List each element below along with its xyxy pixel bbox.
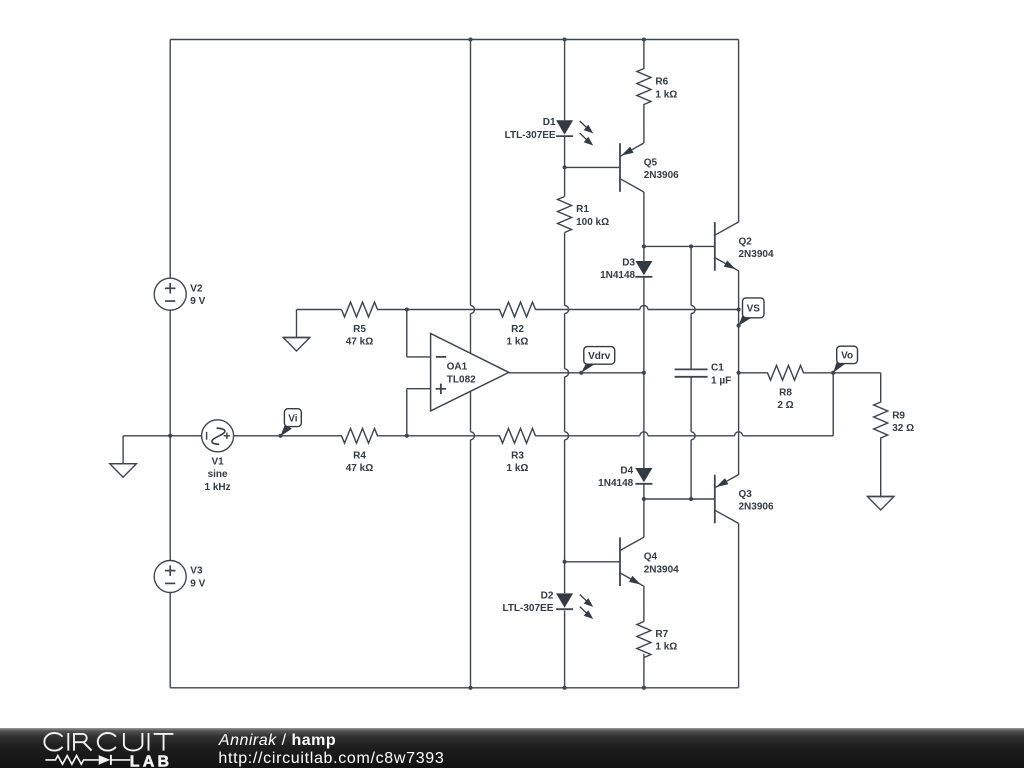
- svg-text:R5: R5: [353, 324, 366, 335]
- junction bottom rail / D2 col: [563, 686, 567, 690]
- voltage source V1 (sine): [202, 420, 234, 452]
- junction Q2 base / D3: [642, 244, 646, 248]
- wire R3 to Vo riser: [535, 435, 640, 437]
- wire ground stub at V1 row: [123, 435, 170, 437]
- wire V1 row left: [170, 435, 201, 437]
- svg-text:TL082: TL082: [447, 374, 476, 385]
- svg-text:R1: R1: [576, 204, 589, 215]
- node plus input (R4/R3): [405, 434, 409, 438]
- wire feedback node to R2: [407, 309, 500, 311]
- svg-text:C1: C1: [711, 363, 724, 374]
- svg-text:1 kΩ: 1 kΩ: [507, 337, 529, 348]
- svg-text:V2: V2: [190, 283, 203, 294]
- wire Q4 base node to D2: [564, 562, 566, 593]
- svg-text:D2: D2: [541, 590, 554, 601]
- svg-text:Annirak / hamp: Annirak / hamp: [218, 732, 336, 749]
- svg-text:9 V: 9 V: [190, 578, 205, 589]
- wire R6 to Q5 emitter: [643, 104, 645, 143]
- wire left rail lower (V3 bottom lead): [169, 593, 171, 688]
- voltage source V3: [154, 561, 186, 593]
- node Vdrv/D3-D4 midpoint: [642, 371, 646, 375]
- svg-text:R3: R3: [511, 450, 524, 461]
- wire V1 to R4: [234, 435, 342, 437]
- svg-text:Vo: Vo: [841, 351, 853, 362]
- svg-text:VS: VS: [747, 303, 761, 314]
- svg-text:R9: R9: [892, 410, 905, 421]
- wire R9 lower lead: [880, 438, 882, 497]
- svg-text:47 kΩ: 47 kΩ: [346, 463, 373, 474]
- svg-text:1N4148: 1N4148: [598, 478, 633, 489]
- wire left rail middle (V2 bottom to V3 top): [169, 310, 171, 560]
- wire Q2 emitter to VS node: [738, 271, 740, 373]
- transistor Q5 (PNP): [619, 143, 621, 192]
- node feedback (R5/R2/op-amp minus): [405, 307, 409, 311]
- svg-text:D3: D3: [622, 257, 635, 268]
- wire D4 cathode to Q3 base node: [643, 485, 645, 500]
- resistor R7: [637, 622, 651, 658]
- wire D2 cathode to bottom rail: [564, 611, 566, 688]
- junction VS column / R8 row: [737, 371, 741, 375]
- svg-text:1 µF: 1 µF: [711, 375, 731, 386]
- wire left rail upper (V2 top lead): [169, 40, 171, 279]
- net label Vdrv: [581, 363, 595, 373]
- wire feedback node down to op-amp minus: [406, 310, 408, 357]
- junction Q3 base / C1 col: [689, 497, 693, 501]
- wire C1 column upper (Q2 base node to C1): [690, 246, 692, 305]
- wire op-amp plus down to R4 node: [407, 388, 431, 390]
- svg-text:Vi: Vi: [288, 413, 297, 424]
- wire D1 cathode to Q5 base node: [564, 137, 566, 167]
- wire D1-R1-D2 column top lead: [564, 40, 566, 121]
- svg-text:32 Ω: 32 Ω: [892, 423, 914, 434]
- resistor R8: [768, 365, 804, 380]
- wire Q5 base node to R1: [564, 167, 566, 196]
- svg-text:1 kΩ: 1 kΩ: [655, 642, 677, 653]
- ground under R9: [867, 496, 894, 498]
- wire Q2 collector to top rail: [738, 40, 740, 223]
- svg-text:2 Ω: 2 Ω: [777, 400, 793, 411]
- svg-text:2N3904: 2N3904: [739, 249, 774, 260]
- ground under R5: [283, 337, 310, 339]
- net label VS: [739, 312, 752, 325]
- transistor Q2 (NPN): [714, 222, 716, 271]
- wire R7 to bottom rail: [643, 654, 645, 688]
- svg-text:V3: V3: [190, 566, 203, 577]
- wire VS column to Q3 emitter: [738, 373, 740, 475]
- diode D3: [635, 261, 652, 275]
- svg-text:Q3: Q3: [739, 489, 753, 500]
- svg-text:V1: V1: [211, 457, 224, 468]
- junction Q2 base / C1 col: [689, 244, 693, 248]
- resistor R1: [558, 197, 572, 233]
- wire R1 down to Q4 base node: [564, 233, 566, 306]
- svg-text:R6: R6: [655, 77, 668, 88]
- net label Vo: [833, 359, 846, 373]
- svg-text:2N3904: 2N3904: [644, 564, 679, 575]
- LED D1: [556, 120, 573, 134]
- svg-text:1 kΩ: 1 kΩ: [507, 463, 529, 474]
- wire Q4 emitter to R7: [643, 586, 645, 622]
- svg-text:Q2: Q2: [739, 236, 753, 247]
- node VS junction: [737, 307, 741, 311]
- voltage source V2: [154, 278, 186, 310]
- logo resistor-diode glyph: [45, 756, 98, 765]
- resistor R3: [500, 428, 536, 443]
- junction bottom rail / col1: [468, 686, 472, 690]
- svg-text:R4: R4: [353, 450, 366, 461]
- wire Q3 base node to Q4 collector: [643, 499, 645, 537]
- diode D4: [635, 468, 652, 482]
- LED D2: [556, 593, 573, 607]
- wire C1 column lower (C1 to Q3 base node): [690, 377, 692, 432]
- capacitor C1: [675, 368, 708, 370]
- resistor R2: [500, 302, 536, 317]
- wire top supply rail: [170, 39, 738, 41]
- wire Q5 collector to Q2 base node: [643, 192, 645, 247]
- svg-text:R8: R8: [779, 387, 792, 398]
- node Vo: [831, 371, 835, 375]
- svg-text:2N3906: 2N3906: [739, 502, 774, 513]
- svg-text:D4: D4: [620, 465, 633, 476]
- wire R5 to feedback node: [377, 309, 407, 311]
- transistor Q4 (NPN): [619, 537, 621, 586]
- wire R8 row from VS column: [739, 372, 768, 374]
- wire R2 to VS column: [535, 309, 640, 311]
- svg-text:R2: R2: [511, 324, 524, 335]
- wire Q2 base: [644, 245, 715, 247]
- wire bottom rail: [170, 687, 738, 689]
- svg-text:LAB: LAB: [130, 754, 172, 768]
- svg-text:LTL-307EE: LTL-307EE: [502, 603, 553, 614]
- wire Q5 base: [565, 166, 620, 168]
- svg-text:OA1: OA1: [447, 361, 468, 372]
- svg-text:sine: sine: [208, 469, 228, 480]
- svg-text:100 kΩ: 100 kΩ: [576, 217, 609, 228]
- wire vertical column through op-amp region: [470, 40, 472, 306]
- wire Q4 base: [565, 561, 620, 563]
- wire R5 ground stub: [296, 310, 298, 338]
- wire R8 to R9 corner: [803, 372, 881, 374]
- svg-text:Q4: Q4: [644, 552, 658, 563]
- wire Vdrv row to D4 anode: [643, 373, 645, 468]
- wire Q3 base: [644, 498, 715, 500]
- resistor R9: [874, 402, 888, 438]
- wire Vo riser: [832, 373, 834, 436]
- op-amp OA1: [431, 333, 509, 411]
- svg-text:R7: R7: [655, 629, 668, 640]
- svg-text:47 kΩ: 47 kΩ: [346, 337, 373, 348]
- junction top rail / col1: [468, 37, 472, 41]
- wire node A to R3: [407, 435, 500, 437]
- svg-text:D1: D1: [543, 117, 556, 128]
- wire R4 to node A: [377, 435, 407, 437]
- svg-text:Vdrv: Vdrv: [588, 351, 611, 362]
- svg-text:LTL-307EE: LTL-307EE: [505, 130, 556, 141]
- svg-text:9 V: 9 V: [190, 296, 205, 307]
- junction top rail / R6 col: [642, 37, 646, 41]
- svg-text:1 kΩ: 1 kΩ: [655, 89, 677, 100]
- junction Q4 base / R1-D2: [563, 560, 567, 564]
- wire Q3 collector to bottom rail: [738, 523, 740, 688]
- svg-text:1 kHz: 1 kHz: [205, 482, 231, 493]
- junction D1 / Q5 base / R1: [563, 165, 567, 169]
- resistor R4: [342, 428, 378, 443]
- junction bottom rail / R7 col: [642, 686, 646, 690]
- svg-text:1N4148: 1N4148: [600, 270, 635, 281]
- junction left rail / V1 row: [168, 434, 172, 438]
- svg-text:Q5: Q5: [644, 157, 658, 168]
- svg-text:2N3906: 2N3906: [644, 170, 679, 181]
- ground at V1 row: [110, 463, 137, 465]
- net label Vi: [280, 424, 291, 436]
- CircuitLab logo word CIRCUIT: [44, 733, 62, 751]
- wire op-amp output to D3-D4 midpoint: [509, 372, 644, 374]
- wire D3 anode lead: [643, 246, 645, 261]
- resistor R5: [342, 302, 378, 317]
- transistor Q3 (PNP): [714, 475, 716, 524]
- svg-text:http://circuitlab.com/c8w7393: http://circuitlab.com/c8w7393: [218, 750, 444, 767]
- junction Q3 base / D4: [642, 497, 646, 501]
- wire D3 cathode to Vdrv row: [643, 278, 645, 373]
- resistor R6: [637, 69, 651, 105]
- junction top rail / D1 col: [563, 37, 567, 41]
- wire R6 top lead: [643, 40, 645, 70]
